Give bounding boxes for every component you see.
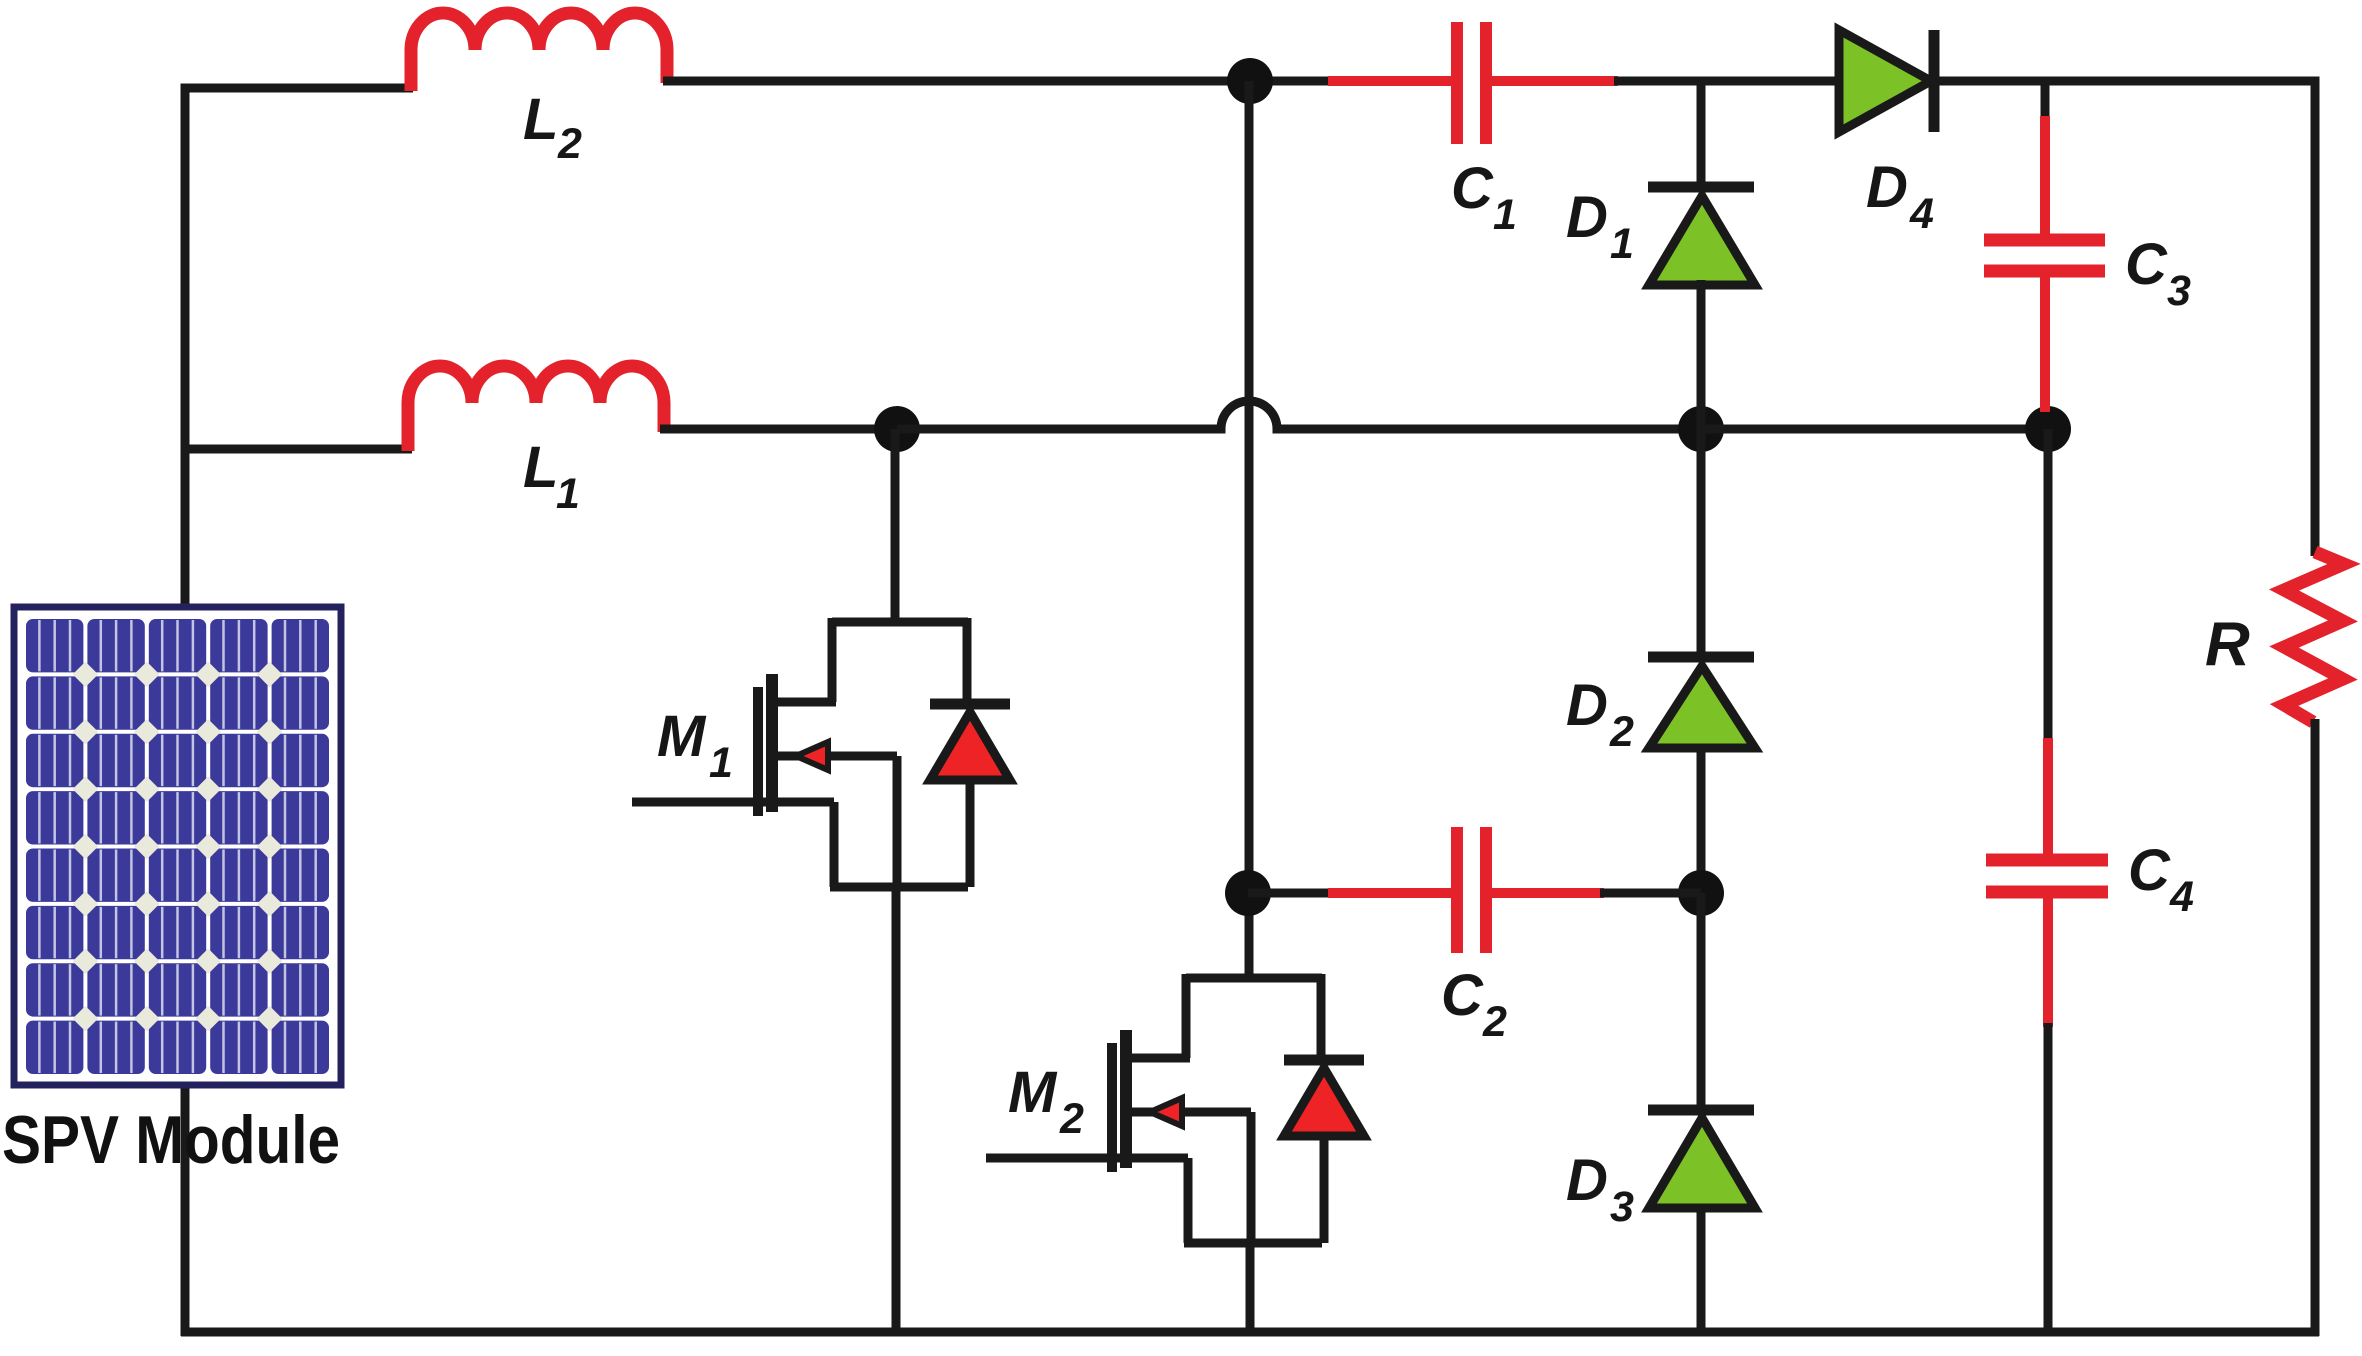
label SPV Module [2,1102,340,1178]
wire M2 drain branch (top rail to M2) [1245,81,1254,982]
diode D2 [1648,657,1755,748]
wire middle rail: M1 node to crossover hop [897,401,1701,429]
wire D1 branch from top rail [1697,77,1706,192]
node C2 right / D2-D3 junction [1678,870,1724,916]
wire C2 node down to D3 cathode [1697,893,1706,1114]
wire left rail + top-left segment (SPV+ to L coils) [185,88,413,1336]
svg-text:3: 3 [2167,267,2191,315]
capacitor C4 plates [1986,860,2108,892]
svg-text:C: C [2125,232,2168,297]
svg-text:D: D [1866,155,1908,220]
svg-text:SPV Module: SPV Module [2,1102,340,1178]
capacitor C2 plates [1457,827,1486,953]
wire C3 upper red lead [2040,116,2050,236]
wire C1 left lead [1328,76,1453,86]
svg-text:2: 2 [1609,708,1634,756]
diode D4 [1839,30,1934,132]
capacitor C1 plates [1457,22,1486,144]
svg-text:D: D [1566,185,1608,250]
wire C4 upper red lead [2043,738,2053,856]
svg-text:1: 1 [1493,191,1517,239]
svg-text:3: 3 [1610,1183,1634,1231]
wire right rail lower (R to bottom-right corner) [2311,719,2320,1336]
label M1 [657,704,733,787]
svg-text:R: R [2205,610,2250,679]
label D1 [1566,185,1634,268]
svg-text:D: D [1566,673,1608,738]
wire C1 right lead [1490,76,1618,86]
svg-text:2: 2 [557,120,582,168]
label D3 [1566,1148,1634,1231]
svg-text:4: 4 [2169,873,2194,921]
wire bottom rail (ground return) [181,1328,2319,1337]
svg-text:1: 1 [556,470,580,518]
svg-text:C: C [1441,963,1484,1028]
svg-text:L: L [523,87,558,152]
label L1 [523,435,580,518]
label D2 [1566,673,1634,756]
svg-text:2: 2 [1482,998,1507,1046]
solar panel SPV Module (symbol) [14,607,341,1085]
wire C3-C4 node black segment [2044,429,2053,744]
diode D3 [1648,1110,1755,1208]
node middle rail / D1-D2 branch [1678,406,1724,452]
wire C4 lower red lead [2043,888,2053,1027]
wire top rail: L2 to C1 [663,77,1332,86]
diode D1 [1648,187,1755,285]
wire C3 lower red lead [2040,275,2050,412]
svg-text:C: C [2128,838,2171,903]
wire C2 right red lead [1490,888,1604,898]
label M2 [1008,1060,1084,1143]
svg-text:D: D [1566,1148,1608,1213]
wire D3 anode to bottom rail [1697,1204,1706,1336]
svg-text:4: 4 [1909,190,1934,238]
transistor M2 (MOSFET with body diode) [986,974,1364,1332]
label C3 [2125,232,2191,315]
label R [2205,610,2250,679]
node middle rail / M1 drain [874,406,920,452]
svg-text:1: 1 [709,739,733,787]
resistor R [2284,552,2344,722]
label C4 [2128,838,2194,921]
wire C2 right black stub [1600,889,1701,898]
capacitor C3 plates [1984,240,2105,271]
wire middle-left segment (left rail to L1) [181,445,412,454]
wire top rail: D4 to top-right corner + right rail upper [1936,81,2315,556]
node C2 left / M2 drain junction [1225,870,1271,916]
svg-text:M: M [657,704,707,769]
wire middle rail: D-branch node to C3-C4 node [1701,425,2048,434]
wire D1 anode to middle rail to D2 cathode [1697,280,1706,661]
svg-text:L: L [523,435,558,500]
svg-text:M: M [1008,1060,1058,1125]
label D4 [1866,155,1934,238]
wire middle rail: L1 to M1 node [660,425,897,434]
label C1 [1451,156,1517,239]
wire C3 black stub from top rail [2041,81,2050,122]
inductor L1 [408,366,664,451]
wire C4 to bottom rail [2044,1023,2053,1336]
label C2 [1441,963,1507,1046]
svg-text:2: 2 [1059,1095,1084,1143]
wire C2 left red lead [1328,888,1453,898]
wire top rail: C1 to D4 anode [1614,77,1843,86]
transistor M1 (MOSFET with body diode) [632,618,1010,1332]
svg-text:1: 1 [1610,220,1634,268]
inductor L2 [411,13,667,91]
wire C2 left black stub [1248,889,1332,898]
wire D2 anode down to C2 node [1697,744,1706,893]
label L2 [523,87,582,168]
svg-text:C: C [1451,156,1494,221]
node top-rail / M2-branch junction [1227,58,1273,104]
node middle rail / C3-C4 branch [2025,406,2071,452]
wire M1 drain (middle rail to M1) [891,429,900,626]
